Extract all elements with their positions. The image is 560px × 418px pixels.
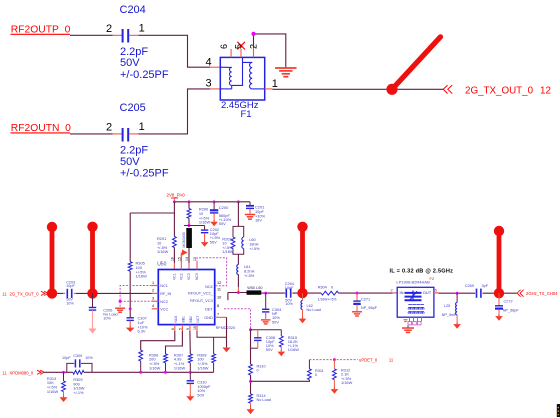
power bus wire 2V8_PA0 (174, 201, 250, 203)
svg-text:12: 12 (540, 86, 551, 97)
label R304 0 1/16W+/-5% (318, 286, 337, 302)
junction on F1 pin2 ground wire (251, 32, 255, 36)
svg-text:50V: 50V (210, 239, 217, 244)
no-connect X on F1 pin 5 (237, 42, 245, 50)
svg-text:4: 4 (152, 304, 154, 308)
ground for C200 (210, 220, 218, 226)
label C269 3pF (465, 284, 489, 288)
svg-text:11: 11 (217, 288, 221, 292)
svg-text:3: 3 (152, 296, 154, 300)
svg-text:IL = 0.32 dB @ 2.5GHz: IL = 0.32 dB @ 2.5GHz (390, 268, 454, 274)
wire R310 junction to R311 (251, 380, 310, 382)
svg-text:8: 8 (217, 304, 219, 308)
net label RF2OUTP_0 (11, 24, 71, 35)
ground for F1 (275, 68, 297, 77)
label L60 18nH +/-5% (249, 237, 260, 251)
wire 2G_TX_OUT_0 to C203 (48, 292, 65, 294)
svg-text:XPDM080_0: XPDM080_0 (10, 370, 34, 375)
svg-text:1/16W: 1/16W (341, 380, 353, 385)
svg-text:1/16W: 1/16W (149, 365, 161, 370)
svg-text:MGM1608: MGM1608 (182, 232, 186, 248)
label C201 10pF +/-10% 16V (255, 205, 266, 223)
capacitor C205 (106, 102, 146, 142)
junction VCC pin at rail (129, 307, 132, 310)
capacitor C201 (246, 206, 254, 214)
svg-text:10: 10 (217, 295, 221, 299)
junction NC tie (119, 300, 122, 303)
wire R200 junction to C202 (184, 225, 205, 227)
resistor R307 (188, 354, 192, 372)
svg-text:U50: U50 (157, 262, 166, 268)
svg-text:NC4: NC4 (205, 285, 213, 289)
svg-text:+/-5%: +/-5% (249, 246, 260, 251)
svg-text:OUT: OUT (423, 290, 432, 295)
svg-text:+/-5%: +/-5% (244, 273, 255, 278)
capacitor C304 shunt (262, 293, 269, 319)
ground for C307 (126, 326, 135, 332)
ferrite bead MGM1608 (black bar) (182, 228, 192, 248)
svg-text:L62: L62 (307, 304, 313, 308)
op-amp U50 (IC body) (158, 270, 214, 325)
svg-text:uPDET_0: uPDET_0 (359, 357, 378, 362)
capacitor C272 shunt NP_56pF (495, 293, 503, 314)
svg-text:VC3: VC3 (187, 273, 191, 280)
wire XPDM080_0 ladder rail (44, 371, 213, 373)
svg-text:1/16W: 1/16W (199, 220, 211, 225)
wire RF2OUTP_0 to C204 pin 2 (70, 34, 122, 36)
svg-text:2: 2 (152, 289, 154, 293)
svg-text:NC1: NC1 (160, 284, 168, 288)
U50 bottom pin numbers (171, 326, 197, 330)
junction DET node (249, 328, 252, 331)
svg-text:9: 9 (186, 328, 190, 330)
capacitor C307 (127, 318, 134, 326)
svg-text:RF_IN: RF_IN (160, 292, 171, 296)
svg-text:RFMD2320: RFMD2320 (216, 326, 235, 330)
resistor R200 (187, 202, 191, 226)
resistor R310 (249, 364, 253, 394)
svg-text:0: 0 (257, 369, 259, 373)
resistor R314 (no load) (249, 394, 253, 408)
label R200 10 +/-5% 1/16W (199, 207, 211, 225)
probe marker 2 on input line (87, 222, 97, 299)
svg-text:2.2pF: 2.2pF (120, 144, 148, 156)
label C309 10pF 10% (62, 354, 93, 360)
svg-text:1: 1 (272, 78, 278, 90)
capacitor C206 (no load) (89, 293, 96, 326)
ground for R313 (60, 396, 68, 402)
svg-text:3pF: 3pF (482, 284, 489, 288)
F1 pin 5 stub (NC) (240, 49, 242, 57)
label R312 2.1K +/-5% 1/16W (341, 368, 353, 385)
net label 11 XPDM080_0 (2, 370, 44, 375)
svg-text:2V8_PA0: 2V8_PA0 (167, 193, 186, 198)
svg-text:1/16W: 1/16W (136, 274, 148, 279)
U50 top pin numbers (171, 257, 198, 261)
junctions on 2V8_PA0 bus (173, 200, 240, 203)
junction C271 tap (356, 292, 359, 295)
probe marker 4 on antenna line (494, 226, 504, 299)
resistor R311 (308, 360, 312, 380)
capacitor C271 shunt NP_56pF (353, 293, 360, 311)
svg-text:10pF: 10pF (66, 284, 75, 288)
svg-text:12: 12 (217, 281, 221, 285)
wire U50 GND pin to ground (197, 317, 227, 347)
ground for LP filter (402, 326, 414, 333)
U50 left pin stubs 1-4 (152, 286, 159, 309)
resistor R312 (333, 360, 337, 388)
svg-text:+/-1%: +/-1% (73, 390, 84, 395)
ground for C206 (no load) (89, 326, 97, 334)
filter F1 2.45GHz (220, 57, 264, 100)
wire pin 11 to W50L50 (228, 292, 247, 294)
svg-text:NC5: NC5 (195, 273, 199, 280)
title block corner (557, 404, 560, 417)
svg-text:C309: C309 (73, 354, 82, 358)
junction R312 tap (333, 358, 336, 361)
capacitor C264 (series) (285, 289, 293, 298)
svg-text:BB2: BB2 (189, 316, 193, 323)
U50 left pin names (160, 284, 171, 311)
U50 top pin names (173, 273, 200, 280)
wire C269 to 2GHz_TX_CH04 (483, 292, 517, 294)
U50 right pin numbers (217, 281, 221, 317)
svg-text:10%: 10% (66, 301, 74, 305)
off-page chevron 2GHz_TX_CH04 (517, 290, 524, 297)
svg-text:2.2pF: 2.2pF (120, 46, 148, 58)
svg-text:C269: C269 (465, 284, 474, 288)
svg-text:RFOUT_VC2_: RFOUT_VC2_ (188, 292, 214, 296)
label R311 0 (315, 369, 324, 377)
label C206 No Load 10% (103, 309, 117, 321)
svg-text:NC6: NC6 (174, 316, 178, 323)
capacitor C203 (series) (67, 289, 71, 298)
capacitor C202 (201, 226, 208, 241)
label R310 0 (257, 365, 266, 373)
U50 left pin numbers (152, 281, 154, 308)
svg-text:6.3V: 6.3V (138, 329, 146, 334)
svg-text:50V: 50V (272, 319, 279, 324)
net label RF2OUTN_0 (11, 123, 72, 134)
svg-text:2G_TX_OUT_0: 2G_TX_OUT_0 (10, 292, 40, 297)
svg-text:IN: IN (400, 290, 404, 295)
resistor R313 (62, 372, 66, 395)
power net 2V8_PA0 (167, 193, 186, 202)
svg-text:F2: F2 (430, 276, 435, 281)
svg-text:NP_5n6: NP_5n6 (442, 313, 456, 317)
svg-text:16V: 16V (255, 218, 262, 223)
svg-text:50V: 50V (266, 347, 273, 352)
label R305 100 +/-5% 1/16W (136, 261, 148, 279)
wire L61 to RF output line (237, 275, 239, 293)
wire U50 pin6 to resistor ladder (141, 331, 175, 350)
svg-text:50V: 50V (120, 156, 140, 168)
resistor R306 (164, 354, 168, 372)
wire to R308 (213, 337, 215, 354)
wire F1 pin 2 to ground (254, 34, 286, 67)
svg-text:3: 3 (206, 77, 212, 89)
svg-text:RFOUT_VC3: RFOUT_VC3 (190, 299, 213, 303)
svg-text:1/16W: 1/16W (47, 389, 59, 394)
net label uPDET_0 11 (359, 357, 394, 362)
label C310 1000pF 10% 50V (197, 380, 211, 398)
value label C204 2.2pF 50V +/-0.25PF (120, 46, 169, 81)
svg-text:5: 5 (179, 328, 183, 330)
wire U50 DET pin to detector network (224, 309, 251, 330)
svg-text:L25: L25 (444, 304, 450, 308)
ground for L25 (453, 323, 461, 329)
svg-text:14: 14 (185, 257, 189, 261)
svg-text:1: 1 (139, 121, 145, 133)
wire pair to L61 (237, 254, 239, 264)
wire R304 to LP filter (339, 292, 398, 294)
LP filter internal coils (408, 304, 424, 313)
label R202 10 +/-5% 1/16W (222, 237, 234, 255)
svg-text:4: 4 (206, 56, 212, 68)
capacitor C200 (210, 202, 218, 220)
svg-text:NC7: NC7 (196, 316, 200, 323)
F1 pin numbers 4 3 1 (206, 56, 278, 90)
designator U50 (157, 262, 166, 268)
microstrip W50 L50 (black bar) (247, 286, 263, 295)
svg-text:0: 0 (331, 286, 333, 290)
label L62 No Load (307, 304, 321, 312)
svg-text:50V: 50V (197, 392, 204, 397)
svg-text:1: 1 (152, 281, 154, 285)
net label 2G_TX_OUT_0 12 (465, 86, 551, 97)
wire W50L50 to C264 (261, 292, 284, 294)
wire bus to R201 and branch to R305 (130, 202, 174, 262)
probe marker on 2G_TX_OUT_0 (386, 37, 440, 95)
label R309 909 1/16W +/-1% (73, 377, 85, 395)
svg-text:NC2: NC2 (160, 300, 168, 304)
resistor R303 (139, 350, 143, 372)
svg-text:11: 11 (2, 370, 7, 375)
svg-text:GND: GND (204, 316, 213, 320)
label C271 NP_56pF (361, 297, 378, 310)
svg-text:2: 2 (106, 23, 112, 35)
capacitor C309 parallel loop (67, 359, 92, 372)
svg-text:C205: C205 (120, 102, 146, 114)
svg-text:11: 11 (2, 292, 7, 297)
svg-text:1/16W: 1/16W (222, 249, 234, 254)
wire bus to L60 R202 pair (237, 202, 239, 227)
svg-text:6: 6 (171, 328, 175, 330)
svg-text:C200: C200 (219, 205, 229, 210)
ground for C271 (352, 312, 362, 316)
F1 pin 6 stub (NC) (230, 49, 232, 57)
svg-text:7: 7 (217, 313, 219, 317)
svg-text:50V: 50V (219, 221, 226, 226)
resistor R304 (series 0 ohm) (321, 291, 339, 295)
label C203 10pF 50V 10% (66, 280, 75, 305)
net label 11 2G_TX_OUT_0 (left) (2, 291, 48, 296)
svg-text:1/16W: 1/16W (197, 365, 209, 370)
svg-text:No Load: No Load (257, 398, 271, 402)
svg-text:R304: R304 (318, 286, 327, 290)
resistor R308 (212, 354, 216, 372)
wire F1 pin 1 to 2G_TX_OUT_0 (265, 88, 443, 90)
svg-text:+/-0.25PF: +/-0.25PF (120, 167, 169, 179)
svg-text:VC2: VC2 (180, 273, 184, 280)
svg-text:15: 15 (193, 326, 197, 330)
junction L61 on output line (237, 291, 240, 294)
F1 pin numbers 6 5 2 (219, 44, 258, 49)
ground for R315 (278, 350, 286, 356)
svg-text:1/16W+/-5%: 1/16W+/-5% (318, 297, 337, 301)
wire C205 pin1 to F1 pin 3 (129, 89, 220, 134)
resistor R315 (279, 330, 283, 350)
probe marker 3 on output line (297, 222, 307, 299)
wire uPDET_0 line (309, 359, 357, 361)
svg-text:1: 1 (139, 23, 145, 35)
ground for C201 (245, 215, 256, 220)
label L25 NP_5n6 (442, 304, 456, 317)
label C272 NP_56pF (503, 299, 520, 312)
capacitor C310 (187, 372, 194, 394)
ground for C304 (261, 320, 271, 324)
svg-text:NP_56pF: NP_56pF (361, 306, 378, 310)
label L61 8.2nH +/-5% (244, 264, 255, 278)
wire C204 pin1 to F1 pin 4 (129, 35, 220, 67)
svg-text:C271: C271 (361, 297, 370, 301)
power flag on U50 pin 15 (181, 250, 187, 263)
svg-text:BB1: BB1 (181, 316, 185, 323)
svg-text:5: 5 (233, 44, 243, 49)
svg-text:10%: 10% (285, 302, 293, 306)
label R314 No Load (257, 394, 271, 402)
off-page connector chevron 2G_TX_OUT_0 (443, 85, 452, 93)
svg-text:11: 11 (389, 357, 394, 362)
wire NC1 NC2 tie to ground (120, 286, 152, 308)
U50 bottom pin stubs (175, 325, 197, 331)
inductor L62 shunt (no load) (301, 293, 303, 317)
ground for NC pins (115, 308, 125, 312)
wire bus to C201 (249, 202, 251, 206)
wire U50 pin9 to R307 (189, 331, 191, 354)
svg-text:VCC: VCC (160, 308, 168, 312)
svg-text:1/16W: 1/16W (288, 347, 300, 352)
ground for C272 (495, 315, 503, 321)
junction C304 tap (264, 292, 267, 295)
label C308 10pF 10% 50V (266, 335, 275, 352)
label R306 200 +/-5% 1/16W (149, 352, 161, 370)
junctions on ladder rail (62, 371, 192, 374)
wire C264 to R304 (293, 292, 321, 294)
svg-text:+/-0.25PF: +/-0.25PF (120, 69, 169, 81)
low pass filter LP1906-B2R4HAB (396, 276, 435, 317)
resistor R201 (173, 237, 177, 248)
svg-text:16: 16 (171, 257, 175, 261)
ground for U50 GND (222, 347, 230, 352)
label 2.45GHz F1 (221, 100, 259, 120)
parallel network R202 and L60 (231, 226, 244, 254)
svg-text:6: 6 (219, 44, 229, 49)
label C307 1uF +/-10% 6.3V (138, 316, 149, 334)
wire R201 to U50 pin 16 (173, 248, 175, 270)
label R307 4.99 +/-1% 1/16W (174, 352, 186, 370)
svg-text:50V: 50V (120, 57, 140, 69)
label R308 100 +/-5% 1/16W (197, 352, 209, 370)
wire U50 pins 11+10 tie (227, 293, 229, 301)
resistor R305 (128, 262, 132, 271)
svg-text:2: 2 (106, 121, 112, 133)
ground for C202 (201, 240, 209, 246)
label R315 18.2K +/-1% 1/16W (288, 335, 300, 352)
wire DET node rails (251, 330, 282, 364)
svg-text:2GHz_TX_CH04: 2GHz_TX_CH04 (526, 291, 558, 296)
junction R310 bottom (249, 380, 252, 383)
capacitor C308 (254, 330, 261, 349)
svg-text:10%: 10% (85, 356, 93, 360)
svg-text:No Load: No Load (307, 308, 321, 312)
U50 bottom pin names (174, 316, 200, 323)
label R313 10K +/-5% 1/16W (47, 376, 59, 394)
LP filter pin numbers 2 and 5 (391, 287, 438, 292)
wire MGM1608 to U50 pin 14 (188, 248, 190, 270)
capacitor C204 (106, 4, 146, 43)
inductor L61 (237, 265, 239, 275)
wire LP filter out (434, 292, 475, 294)
svg-text:0: 0 (315, 373, 317, 377)
inductor L25 shunt (456, 293, 458, 322)
svg-text:10pF: 10pF (62, 356, 71, 360)
label C202 10pF +/-5% 50V (210, 227, 221, 245)
svg-text:VC1: VC1 (173, 273, 177, 280)
svg-text:10pF: 10pF (285, 286, 294, 290)
ground for R314 (247, 408, 255, 415)
label C304 NP 10% 50V (272, 307, 282, 324)
net label 2GHz_TX_CH04 (526, 291, 558, 296)
svg-text:DET: DET (205, 308, 213, 312)
wire U50 pin13 wrap to pin 12 (NC4) (197, 258, 227, 286)
svg-text:F1: F1 (241, 109, 252, 120)
junction L25 tap (456, 292, 459, 295)
ground for L62 (299, 317, 307, 323)
U50 top pin stubs 16 15 14 13 (181, 263, 197, 270)
note IL = 0.32 dB @ 2.5GHz (390, 268, 454, 274)
svg-text:10%: 10% (103, 317, 111, 321)
junction R200 bottom (188, 224, 191, 227)
resistor R309 (series) (73, 370, 84, 374)
wire R305 to C307 VCC rail (129, 271, 131, 317)
label C264 10pF 50V 10% (285, 282, 294, 306)
svg-text:2G_TX_OUT_0: 2G_TX_OUT_0 (465, 86, 534, 97)
ground for C310 (186, 395, 194, 401)
ground for R312 (331, 388, 339, 394)
svg-text:LP1906-B2R4HAB: LP1906-B2R4HAB (396, 280, 430, 285)
wire U50 pin5 to R306 (166, 331, 183, 354)
wire C203 to U50 RF_IN pin 2 (74, 292, 159, 294)
svg-text:1/16W: 1/16W (174, 365, 186, 370)
svg-text:NP_56pF: NP_56pF (503, 309, 520, 313)
svg-text:1/16W: 1/16W (157, 249, 169, 254)
label C200 560pF +/-10% 50V (219, 205, 232, 226)
capacitor C269 (series) (475, 289, 483, 298)
label R201 10 +/-5% 1/16W (157, 236, 169, 254)
LP filter ground pins (404, 317, 422, 325)
value label C205 2.2pF 50V +/-0.25PF (120, 144, 169, 179)
svg-text:C204: C204 (120, 4, 146, 16)
probe marker 1 on input line (47, 222, 57, 299)
U50 right pin names (188, 285, 214, 320)
svg-text:C272: C272 (504, 299, 513, 303)
wire RF2OUTN_0 to C205 pin 2 (70, 133, 122, 135)
part number RFMD2320 (216, 326, 235, 330)
svg-text:W50 L50: W50 L50 (247, 286, 262, 290)
